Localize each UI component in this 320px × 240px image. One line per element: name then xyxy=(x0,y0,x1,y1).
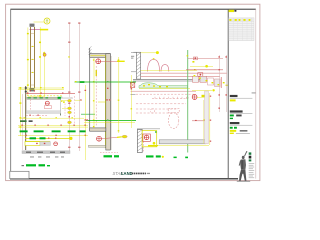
base tiny text row xyxy=(30,156,64,157)
top corner yellow line xyxy=(91,55,110,57)
green level line upper xyxy=(75,81,137,83)
info block 2 dark text xyxy=(236,115,241,117)
sill top dim yellow double xyxy=(18,87,64,89)
stamp box bottom-left xyxy=(10,171,29,178)
ceiling dark line b xyxy=(133,80,205,82)
inner frame top line xyxy=(10,8,255,10)
title block divider xyxy=(227,9,229,178)
inner frame left line xyxy=(10,9,12,178)
legend dark block xyxy=(249,156,252,159)
wall column xyxy=(106,54,111,150)
green level lower end marks xyxy=(86,119,88,120)
baseline yellow line b xyxy=(25,140,50,142)
red line upper xyxy=(141,72,227,74)
red dim line xyxy=(26,92,75,94)
skirting detail marker xyxy=(54,142,58,146)
title block yellow logo bar xyxy=(229,10,234,12)
wall spine blocks xyxy=(25,87,27,89)
cabinet red vertical dashed xyxy=(30,100,32,110)
left label dark tick xyxy=(22,165,25,166)
marker yellow leader xyxy=(197,97,207,99)
corner green dot xyxy=(155,131,157,132)
lower red dim line xyxy=(192,120,207,122)
leader head yellow c xyxy=(68,111,72,114)
mid dim vertical b xyxy=(118,57,120,133)
detail marker top xyxy=(96,59,101,64)
worker ground line xyxy=(237,180,250,182)
green text row xyxy=(20,130,86,132)
fixture dashed tank xyxy=(168,109,179,113)
base gray band xyxy=(22,151,70,154)
dim line v0 left of channel xyxy=(27,28,29,97)
yellow line under mound xyxy=(139,88,190,90)
mullion bottom cap xyxy=(30,88,35,91)
channel inner yellow dim xyxy=(93,58,95,128)
yellow leader right mid xyxy=(192,90,212,92)
leader top red xyxy=(101,60,117,62)
dim line v1 xyxy=(39,27,41,100)
red dim diamonds xyxy=(27,93,63,94)
right yellow dim line xyxy=(85,85,87,160)
inner yellow text vertical a xyxy=(96,70,97,76)
channel inner yellow dots xyxy=(32,46,33,73)
corner hatch strip xyxy=(137,130,142,153)
channel left edge xyxy=(89,48,91,131)
right wall band xyxy=(205,91,209,144)
mullion top cap xyxy=(30,24,35,27)
counter band xyxy=(27,97,61,99)
baseline yellow circle end xyxy=(69,137,72,140)
left label green tick xyxy=(47,165,50,166)
base band dark dashes xyxy=(26,152,31,153)
lower red dim marks xyxy=(195,120,196,121)
wall spine pink companion xyxy=(22,94,24,150)
right dim vertical b xyxy=(226,55,228,112)
mound yellow specks xyxy=(143,84,168,87)
right label green text b xyxy=(156,155,161,157)
wall red diamonds xyxy=(106,99,108,100)
red-yellow knob xyxy=(43,53,46,56)
wall yellow edge xyxy=(104,56,106,148)
wall spine dark vertical xyxy=(25,86,27,150)
counter gray band right part xyxy=(61,97,73,99)
leader head yellow b xyxy=(62,107,68,109)
info block 3 rule b xyxy=(236,133,250,135)
baseline green text b xyxy=(40,137,46,139)
yellow leader head right xyxy=(212,89,214,91)
dim v2 marker xyxy=(43,52,45,54)
corner red box xyxy=(143,134,150,141)
right label green text a xyxy=(146,155,154,157)
pipe top yellow diamond xyxy=(187,55,189,56)
worker figure head xyxy=(242,156,245,159)
worker figure torso shade xyxy=(241,160,243,169)
tall dim red ticks xyxy=(68,22,80,148)
yellow right dim marks xyxy=(210,96,212,142)
red diamonds under cabinet xyxy=(29,115,30,116)
red dashed a xyxy=(136,93,196,95)
marker yellow text xyxy=(202,95,207,97)
corner gray line xyxy=(137,128,160,130)
small dashed circle xyxy=(150,109,154,113)
info block 1 rule xyxy=(230,97,253,99)
table header yellow cell 3 xyxy=(239,19,241,21)
detail circle marker A text xyxy=(46,20,48,21)
revision table header row xyxy=(229,18,254,21)
top wall hatch xyxy=(88,46,91,55)
sill top dim markers xyxy=(20,87,64,88)
info block 2 green small text xyxy=(230,118,233,119)
wall pale yellow edge xyxy=(202,100,204,144)
worker figure legs xyxy=(239,170,246,181)
inner dim markers xyxy=(93,59,95,127)
info block 3 rule xyxy=(230,124,253,126)
dim yellow mid xyxy=(20,117,84,119)
corner red dashed drop xyxy=(143,141,145,152)
detail marker bottom xyxy=(97,136,102,141)
baseline green text a xyxy=(30,137,37,139)
table header yellow cell 4 xyxy=(243,19,245,21)
cabinet red marker xyxy=(45,101,49,105)
red X box xyxy=(130,83,135,88)
info block 3 yellow text b xyxy=(230,133,234,134)
info block 1 yellow text xyxy=(230,99,236,101)
small text under mid dim xyxy=(20,120,27,122)
bottom tan band xyxy=(89,145,106,147)
red swan-neck arc a xyxy=(148,59,160,71)
left label green text b xyxy=(39,164,46,166)
magenta top line xyxy=(30,29,41,31)
inner frame bottom thick line xyxy=(10,178,238,180)
counter green end text xyxy=(58,97,63,99)
red dashed vertical short xyxy=(64,104,66,117)
green level line lower xyxy=(86,119,136,121)
info block 2 rule xyxy=(230,113,253,115)
bracket yellow diamonds xyxy=(194,75,228,86)
lower dim red diamonds xyxy=(21,125,85,126)
outer border frame xyxy=(6,4,260,180)
mullion right edge xyxy=(34,27,36,88)
wall gray stripe xyxy=(110,56,112,150)
tall dim line left (pink) xyxy=(68,23,70,152)
red dashed vertical mid xyxy=(74,96,76,126)
legend green block 2 xyxy=(249,159,252,161)
logo tail tiny text xyxy=(147,173,150,174)
upper small yellow diamond xyxy=(192,61,194,63)
counter green dashes xyxy=(28,97,49,98)
mullion bottom red dots xyxy=(30,90,31,91)
revision table body xyxy=(229,18,254,41)
tiny gray note left of wall xyxy=(131,56,134,57)
legend green block 1 xyxy=(249,152,252,154)
table header yellow cell 2 xyxy=(235,19,237,21)
ceiling leader yellow xyxy=(141,52,156,54)
worker figure torso xyxy=(240,159,246,169)
upper right red line b xyxy=(188,57,223,59)
leader to circle A xyxy=(34,21,44,23)
cabinet right red dim xyxy=(61,97,73,99)
info block 2 green text xyxy=(230,115,234,117)
yellow line under wall xyxy=(150,145,209,147)
mid label red dashed xyxy=(100,152,118,154)
red dashed b xyxy=(152,98,186,100)
tiny gray note top of info area xyxy=(252,92,256,93)
bracket red vertical xyxy=(220,77,222,88)
wall hatch column xyxy=(136,52,140,79)
left side tick xyxy=(75,99,82,101)
mid dim c markers xyxy=(131,88,133,89)
cabinet red detail right xyxy=(44,106,51,109)
info block 3 green text a xyxy=(230,127,233,129)
corner yellow thick tick xyxy=(148,145,158,147)
hidden dashed c xyxy=(136,108,178,110)
tall dim line right (pink) xyxy=(78,23,80,152)
yellow tick bottom xyxy=(28,95,44,97)
title block logo dark mark xyxy=(234,10,236,12)
red dashed vertical xyxy=(95,66,97,126)
red diamond between xyxy=(69,116,71,117)
yellow line red ticks xyxy=(25,135,26,136)
fixture dashed bowl xyxy=(168,113,178,129)
logo company small text xyxy=(132,173,146,175)
leader bottom red xyxy=(101,137,117,138)
ceiling leader head xyxy=(156,51,159,54)
right label green tick xyxy=(174,157,177,159)
ceiling dark line a xyxy=(133,78,205,80)
table header yellow cell 5 xyxy=(249,19,251,21)
info block 3 green text b xyxy=(234,127,237,129)
legend tiny text lines xyxy=(249,163,255,177)
mullion rungs xyxy=(31,34,35,86)
dim yellow mid markers xyxy=(23,117,73,118)
inner frame right faint line xyxy=(255,9,257,178)
green elevation note xyxy=(80,81,85,83)
yellow top thick segment xyxy=(40,29,48,31)
bracket red lattice xyxy=(193,76,199,82)
worker figure raised arm xyxy=(245,152,247,157)
leader bottom text xyxy=(122,135,127,138)
channel top corner xyxy=(90,54,111,58)
baseline yellow line a xyxy=(25,137,70,139)
upper right yellow leader xyxy=(190,66,213,68)
green elevation segment xyxy=(81,113,95,115)
cabinet bottom gray band xyxy=(27,111,61,114)
mid dim b markers xyxy=(118,59,120,131)
detail marker right xyxy=(192,95,197,100)
right dim red diamonds xyxy=(218,56,227,108)
corner yellow cluster xyxy=(58,99,65,103)
leader head yellow a xyxy=(62,100,68,102)
leader top yellow arrow xyxy=(117,60,125,62)
cabinet open rect xyxy=(27,100,61,114)
tall dim yellow marker xyxy=(68,56,70,57)
skirting red marks xyxy=(36,143,38,144)
corner yellow box xyxy=(142,131,157,147)
hanger yellow diamond xyxy=(194,69,196,70)
counter yellow dashed top xyxy=(27,95,63,97)
upper right yellow head xyxy=(205,65,208,68)
upper right red line xyxy=(186,69,223,71)
left yellow dim line xyxy=(20,87,22,136)
table header yellow cell 1 xyxy=(229,19,231,21)
corner detail marker xyxy=(144,135,149,140)
yellow double dim lower xyxy=(18,124,88,126)
green pipe vertical xyxy=(187,50,189,153)
info block 3 yellow text a xyxy=(230,130,236,132)
baseline red diamonds xyxy=(48,138,49,139)
skirting flat box yellow part xyxy=(25,142,40,146)
info block 3 dark text xyxy=(240,130,248,131)
wall top edge xyxy=(133,51,140,53)
corner yellow dot xyxy=(153,142,156,145)
leader head yellow d xyxy=(68,121,72,124)
far green dot xyxy=(185,157,188,159)
hanger yellow line xyxy=(141,69,197,71)
mid label green text b xyxy=(114,155,119,157)
dim line v2 xyxy=(43,52,45,100)
insulation mound xyxy=(139,83,188,88)
dim v1 markers xyxy=(39,42,41,97)
red line lower xyxy=(141,75,220,77)
info block 3 title xyxy=(230,122,240,124)
worker figure left arm xyxy=(239,160,240,165)
yellow right dim xyxy=(209,93,211,145)
table column lines xyxy=(233,18,251,41)
detail circle marker A xyxy=(44,18,50,24)
svg-text:LAND: LAND xyxy=(121,171,133,176)
inner yellow leader mid xyxy=(98,101,106,103)
green level upper end marks xyxy=(75,81,77,82)
right yellow dim red ticks xyxy=(85,90,87,136)
info block 1 title xyxy=(230,95,238,97)
bottom wall band xyxy=(159,140,206,144)
right label yellow dot xyxy=(162,156,164,158)
hidden dashed d xyxy=(136,112,178,114)
skirting flat box gray part xyxy=(40,142,50,146)
mid width yellow line xyxy=(84,121,135,123)
red line under mound xyxy=(131,90,196,92)
left label green text a xyxy=(26,164,36,166)
upper small red box xyxy=(193,57,197,60)
left yellow dim markers xyxy=(19,87,21,127)
yellow line above box xyxy=(18,135,88,137)
red dashed under cabinet xyxy=(26,114,48,116)
swan-neck yellow diamond xyxy=(153,58,155,59)
right dim vertical a xyxy=(219,55,221,112)
red swan-neck arc b xyxy=(161,65,169,72)
mid label green text a xyxy=(104,155,113,157)
info block 2 title xyxy=(230,110,243,112)
channel bottom corner xyxy=(90,128,106,131)
table row lines xyxy=(229,21,254,38)
mullion left edge xyxy=(30,27,32,88)
cabinet right end vertical xyxy=(60,97,62,116)
mid dim vertical c xyxy=(131,75,133,128)
wall left ticks xyxy=(131,51,136,53)
red component box xyxy=(198,73,203,77)
